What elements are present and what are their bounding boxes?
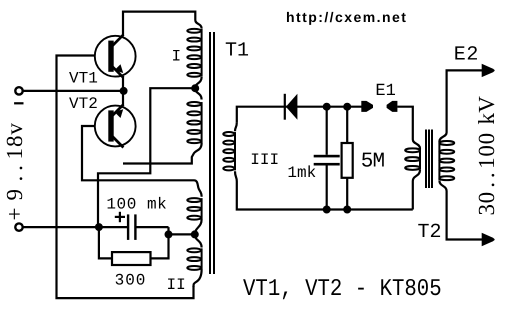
svg-text:.: . bbox=[474, 172, 499, 178]
svg-text:http://cxem.net: http://cxem.net bbox=[286, 9, 407, 25]
svg-text:VT1, VT2 - KT805: VT1, VT2 - KT805 bbox=[243, 276, 442, 303]
svg-text:k: k bbox=[474, 113, 499, 125]
svg-text:.: . bbox=[2, 165, 27, 171]
svg-text:II: II bbox=[167, 276, 186, 294]
svg-text:0: 0 bbox=[474, 133, 499, 145]
svg-text:1: 1 bbox=[474, 157, 499, 169]
svg-text:VT2: VT2 bbox=[69, 95, 98, 113]
svg-text:III: III bbox=[250, 151, 279, 169]
svg-text:V: V bbox=[474, 96, 499, 113]
svg-text:v: v bbox=[2, 123, 27, 135]
svg-text:E2: E2 bbox=[454, 44, 479, 67]
svg-text:+: + bbox=[2, 208, 27, 221]
svg-text:100 mk: 100 mk bbox=[106, 196, 167, 214]
svg-text:.: . bbox=[2, 176, 27, 182]
svg-text:VT1: VT1 bbox=[69, 69, 98, 87]
svg-text:9: 9 bbox=[2, 189, 27, 201]
svg-text:I: I bbox=[172, 47, 182, 65]
svg-text:T2: T2 bbox=[418, 221, 442, 244]
svg-text:8: 8 bbox=[2, 136, 27, 148]
svg-text:T1: T1 bbox=[225, 39, 249, 62]
svg-text:3: 3 bbox=[474, 204, 499, 216]
svg-text:0: 0 bbox=[474, 192, 499, 204]
svg-text:300: 300 bbox=[115, 272, 147, 290]
svg-text:1: 1 bbox=[2, 148, 27, 160]
svg-text:.: . bbox=[474, 182, 499, 188]
svg-text:5M: 5M bbox=[361, 150, 385, 173]
svg-text:E1: E1 bbox=[375, 82, 395, 101]
svg-text:0: 0 bbox=[474, 145, 499, 157]
svg-text:1mk: 1mk bbox=[287, 164, 316, 182]
